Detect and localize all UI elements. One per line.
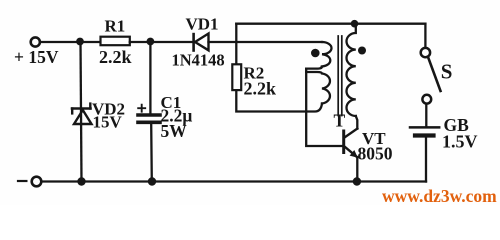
zener diode VD2 cathode bar bbox=[72, 107, 91, 110]
diode VD1 triangle bbox=[195, 34, 209, 51]
terminal - output (bottom left) bbox=[32, 177, 42, 187]
terminal + input (top left) bbox=[31, 37, 40, 46]
capacitor C1 bottom lead bbox=[150, 124, 153, 182]
zener diode VD2 bar tick left bbox=[71, 109, 73, 114]
node B junction dot (C1 tap) bbox=[147, 38, 155, 46]
svg-text:www.dz3w.com: www.dz3w.com bbox=[382, 186, 497, 205]
junction dot VD2 bottom bbox=[77, 177, 85, 185]
svg-text:1.5V: 1.5V bbox=[442, 132, 478, 152]
transformer core line 2 bbox=[341, 36, 343, 116]
transformer core line 1 bbox=[337, 36, 339, 116]
wire bottom rail bbox=[42, 180, 426, 182]
wire R1 to VD1 bbox=[130, 41, 193, 43]
resistor R1 bbox=[101, 37, 130, 46]
battery GB short plate bbox=[415, 133, 434, 137]
diode VD1 cathode bar bbox=[192, 34, 195, 50]
svg-text:5W: 5W bbox=[161, 121, 188, 141]
zener diode VD2 triangle bbox=[74, 110, 92, 124]
transistor VT emitter arrowhead bbox=[350, 150, 358, 158]
capacitor C1 bottom plate bbox=[138, 121, 160, 125]
node battery-rail junction dot (secondary top) bbox=[351, 20, 359, 28]
svg-text:8050: 8050 bbox=[358, 144, 393, 164]
svg-text:+ 15V: + 15V bbox=[14, 47, 59, 67]
battery GB long plate bbox=[410, 126, 439, 129]
switch S bottom contact bbox=[422, 95, 431, 104]
capacitor C1 top plate bbox=[138, 113, 160, 117]
wire winding tap to transistor base bbox=[306, 69, 342, 146]
capacitor C1 plus sign bbox=[138, 105, 145, 112]
transistor VT emitter stroke bbox=[345, 147, 358, 158]
wire VD1 to transformer primary top bbox=[209, 41, 323, 43]
wire switch to battery bbox=[425, 104, 427, 126]
svg-text:2.2k: 2.2k bbox=[99, 47, 132, 67]
phase dot (primary) bbox=[311, 49, 320, 58]
capacitor C1 top lead bbox=[149, 42, 151, 114]
junction dot emitter bottom bbox=[353, 177, 361, 185]
transformer T feedback winding (left, lower two turns) bbox=[306, 72, 330, 104]
wire battery top rail bbox=[236, 23, 425, 25]
switch S top contact bbox=[421, 48, 430, 57]
svg-text:T: T bbox=[334, 111, 346, 131]
resistor R2 bbox=[232, 64, 241, 90]
junction dot C1 bottom bbox=[148, 177, 156, 185]
svg-text:15V: 15V bbox=[93, 113, 123, 132]
svg-text:2.2k: 2.2k bbox=[244, 79, 277, 99]
wire top rail: terminal to R1 bbox=[40, 41, 100, 43]
svg-text:S: S bbox=[441, 60, 453, 84]
transistor VT base bar bbox=[342, 131, 345, 153]
transistor VT collector stroke bbox=[345, 129, 358, 138]
transformer T winding jog (series link) bbox=[306, 67, 322, 69]
wire battery rail to switch bbox=[424, 24, 426, 48]
wire battery to bottom rail bbox=[425, 138, 427, 182]
minus sign bbox=[18, 180, 26, 182]
switch S blade bbox=[428, 57, 441, 91]
wire R2 drop from battery rail bbox=[235, 24, 237, 65]
svg-text:1N4148: 1N4148 bbox=[172, 51, 225, 70]
node A junction dot (VD2 tap) bbox=[76, 38, 84, 46]
svg-text:VD1: VD1 bbox=[186, 15, 219, 34]
wire secondary bottom to collector bbox=[356, 116, 358, 129]
wire R2 bottom to feedback winding bbox=[236, 90, 322, 111]
wire emitter to bottom rail bbox=[356, 157, 358, 181]
svg-text:R1: R1 bbox=[105, 17, 126, 36]
transformer T secondary winding (right, five turns) bbox=[346, 24, 355, 116]
zener diode VD2 branch wire bbox=[81, 42, 82, 182]
phase dot (secondary) bbox=[358, 47, 366, 55]
zener diode VD2 bar tick right bbox=[89, 104, 91, 109]
transformer T primary winding (left, upper two turns) bbox=[322, 42, 332, 67]
